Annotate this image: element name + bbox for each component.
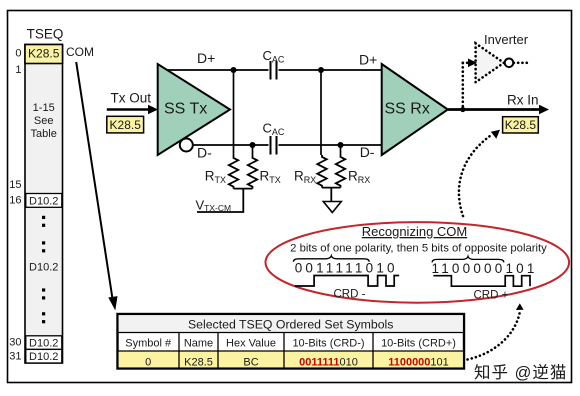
svg-text:D+: D+	[359, 52, 377, 68]
svg-text:BC: BC	[243, 356, 258, 368]
svg-text:Rx In: Rx In	[507, 93, 539, 108]
svg-text:Table: Table	[31, 128, 57, 140]
svg-text:Name: Name	[184, 337, 213, 349]
svg-text:知乎 @逆猫: 知乎 @逆猫	[474, 363, 567, 382]
svg-text:Tx Out: Tx Out	[111, 91, 152, 106]
svg-text:K28.5: K28.5	[505, 118, 537, 132]
svg-text:CRD -: CRD -	[334, 289, 366, 301]
svg-text:10-Bits (CRD+): 10-Bits (CRD+)	[381, 337, 456, 349]
svg-text:1-15: 1-15	[33, 102, 55, 114]
svg-text:K28.5: K28.5	[110, 118, 142, 132]
svg-text:Recognizing COM: Recognizing COM	[362, 224, 468, 239]
svg-text:D10.2: D10.2	[29, 337, 58, 349]
svg-text:15: 15	[9, 179, 21, 191]
svg-text:31: 31	[9, 351, 21, 363]
svg-text:0: 0	[145, 356, 151, 368]
svg-text:16: 16	[9, 195, 21, 207]
svg-text:0011111010: 0011111010	[299, 356, 358, 368]
svg-text:D-: D-	[360, 144, 375, 160]
svg-text:0: 0	[15, 48, 21, 60]
svg-text:2 bits of one polarity, then 5: 2 bits of one polarity, then 5 bits of o…	[290, 243, 547, 255]
svg-text:Symbol #: Symbol #	[125, 337, 172, 349]
svg-text:K28.5: K28.5	[184, 356, 213, 368]
svg-text:D-: D-	[197, 145, 212, 161]
svg-text:1: 1	[15, 64, 21, 76]
svg-text:10-Bits (CRD-): 10-Bits (CRD-)	[292, 337, 364, 349]
svg-text:Hex Value: Hex Value	[226, 337, 276, 349]
svg-text:See: See	[34, 115, 54, 127]
svg-text:COM: COM	[66, 45, 94, 59]
svg-text:30: 30	[9, 337, 21, 349]
svg-text:Inverter: Inverter	[484, 32, 529, 47]
svg-text:SS Rx: SS Rx	[385, 101, 430, 118]
svg-text:CRD +: CRD +	[474, 290, 509, 302]
svg-text:D10.2: D10.2	[29, 195, 58, 207]
svg-text:K28.5: K28.5	[28, 47, 60, 61]
svg-text:SS Tx: SS Tx	[164, 101, 207, 118]
svg-text:1100000101: 1100000101	[432, 261, 538, 276]
svg-text:1100000101: 1100000101	[388, 356, 449, 368]
svg-text:0011111010: 0011111010	[295, 261, 398, 276]
svg-text:D+: D+	[197, 50, 215, 66]
svg-text:D10.2: D10.2	[29, 262, 58, 274]
svg-text:D10.2: D10.2	[29, 351, 58, 363]
svg-text:Selected TSEQ Ordered Set Symb: Selected TSEQ Ordered Set Symbols	[188, 317, 394, 331]
svg-text:TSEQ: TSEQ	[27, 27, 64, 42]
